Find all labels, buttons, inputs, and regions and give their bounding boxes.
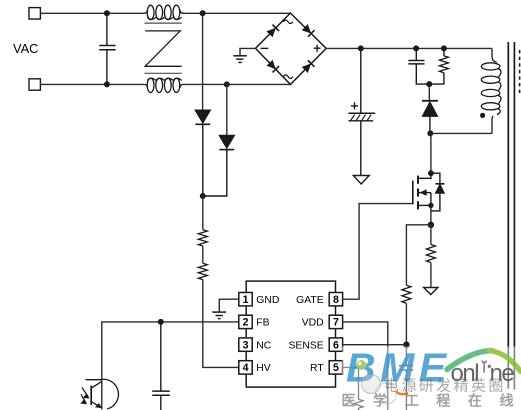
optocoupler U2 (80, 379, 118, 409)
node bulk cap (358, 45, 364, 51)
pin 2 box (239, 315, 252, 328)
wire D3 node to MOSFET drain (430, 133, 432, 173)
node X-cap bottom (104, 81, 110, 87)
wire R5 to sense pin node (405, 304, 407, 345)
wire choke to bridge bottom (185, 83, 291, 85)
bridge diode top-right (302, 24, 315, 37)
resistor R3 snubber (429, 48, 448, 84)
IC U1 body (246, 281, 335, 387)
inductor T1 primary winding (481, 57, 501, 133)
wire SENSE net (343, 344, 407, 346)
ground G4 (pin1) (212, 312, 226, 319)
pin 4 box (239, 361, 252, 374)
wire DC+ rail (326, 47, 492, 49)
node FB cap (158, 319, 164, 325)
node D3/transformer/drain (427, 130, 433, 136)
capacitor C1 (X-cap) (99, 13, 115, 84)
inductor L1a (CM choke top winding) (144, 5, 185, 19)
capacitor C3 snubber (408, 48, 429, 84)
svg-text:NC: NC (256, 340, 272, 351)
bridge rectifier BR1 (256, 13, 327, 84)
wire pin1 to ground (219, 299, 239, 312)
bridge diode bottom-right (302, 60, 315, 73)
core mark Z (145, 31, 182, 66)
wire GATE net (343, 204, 413, 300)
wire to R startup (202, 196, 204, 230)
bridge plus mark (314, 45, 321, 52)
core line (choke bottom) (144, 72, 181, 74)
wire source to sense node (430, 211, 432, 225)
transistor Q1 MOSFET (413, 173, 431, 211)
pin 6 box (329, 338, 342, 351)
inductor L1b (CM choke bottom winding) (144, 78, 185, 92)
svg-text:GATE: GATE (296, 295, 324, 306)
node source tie (428, 203, 433, 208)
wire R2 to HV pin4 (203, 280, 239, 368)
wire primary bottom to node (430, 132, 492, 134)
resistor R4 current sense (426, 245, 435, 263)
wire sense node to R5 branch (406, 225, 431, 285)
svg-text:FB: FB (256, 318, 269, 329)
node L1 out (200, 10, 206, 16)
svg-text:6: 6 (333, 339, 339, 351)
svg-text:RT: RT (310, 363, 324, 374)
pin 3 box (239, 338, 252, 351)
pin names (256, 295, 324, 374)
terminal T1 (VAC top) (29, 8, 40, 19)
pin 1 box (239, 293, 252, 306)
node snubber cap (413, 45, 419, 51)
svg-text:GND: GND (256, 295, 279, 306)
wire choke to bridge top (185, 12, 291, 14)
polarity dot primary (480, 113, 485, 118)
pin 5 box (329, 361, 342, 374)
wire bridge minus to ground (240, 48, 256, 55)
svg-text:2: 2 (243, 317, 249, 329)
resistor R5 sense filter (402, 285, 411, 303)
svg-text:HV: HV (256, 363, 271, 374)
core line (choke top) (144, 22, 181, 24)
wire top AC line (40, 12, 144, 14)
node drain (428, 170, 434, 176)
capacitor C2 bulk electrolytic (348, 48, 375, 175)
ground G1 (bridge) (233, 56, 247, 63)
wire R4 to ground (430, 263, 432, 288)
wire between R1 R2 (202, 246, 204, 263)
pin 8 box (329, 293, 342, 306)
svg-text:4: 4 (243, 362, 249, 374)
capacitor C5 sense (399, 345, 414, 410)
bridge diode top-left (266, 25, 279, 38)
node X-cap top (104, 10, 110, 16)
bridge AC mark bottom (283, 75, 293, 78)
body diode Q1 (431, 173, 445, 211)
ground G2 (triangle under C2) (353, 176, 369, 185)
wire rail corner to primary (491, 48, 493, 57)
node D2 tap (224, 81, 230, 87)
capacitor C4 FB (152, 322, 170, 410)
resistor R6 RT (354, 399, 363, 410)
resistor R2 (198, 263, 207, 279)
bridge AC mark top (283, 20, 293, 23)
wire bottom AC line (40, 83, 144, 85)
pin numbers (243, 294, 339, 374)
svg-text:1: 1 (243, 294, 249, 306)
diode D2 (203, 135, 234, 196)
svg-text:5: 5 (333, 362, 339, 374)
svg-text:SENSE: SENSE (288, 340, 323, 351)
pin 7 box (329, 315, 342, 328)
node D1/D2 join (200, 193, 206, 199)
plus mark C2 (351, 102, 358, 109)
wire FB net (102, 322, 239, 380)
transformer core lines (508, 42, 514, 390)
svg-text:VAC: VAC (13, 41, 38, 56)
svg-text:VDD: VDD (302, 318, 324, 329)
secondary winding cut marks (519, 50, 521, 96)
ground G3 (triangle under R4) (424, 288, 438, 295)
node snubber join (426, 81, 432, 87)
svg-text:7: 7 (333, 317, 339, 329)
node SENSE junction (403, 342, 409, 348)
wire VDD net (343, 322, 388, 410)
wire sense node down (430, 225, 432, 245)
node sense (428, 222, 434, 228)
terminal T2 (VAC bottom) (29, 79, 40, 90)
svg-text:3: 3 (243, 339, 249, 351)
diode D1 (195, 110, 210, 196)
svg-text:8: 8 (333, 294, 339, 306)
bridge diode bottom-left (266, 60, 279, 73)
wire D2 branch vertical (226, 84, 228, 135)
resistor R1 (198, 230, 207, 246)
wire RT net (343, 367, 359, 399)
diode D3 (clamp, pointing up) (422, 101, 438, 134)
wire D1 branch vertical (202, 13, 204, 110)
bridge minus mark (261, 47, 269, 49)
wire snubber to D3 (428, 84, 430, 101)
node snubber res (441, 45, 447, 51)
